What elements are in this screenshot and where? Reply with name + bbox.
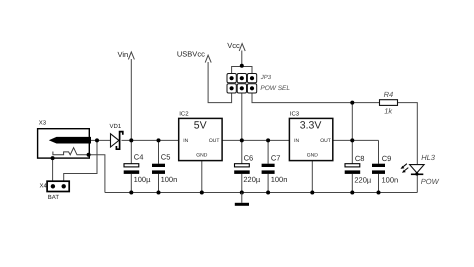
svg-text:IN: IN: [294, 138, 299, 144]
JP3 pin 5 box (bottom middle): [237, 84, 246, 93]
IC3 body: [289, 118, 332, 160]
ground: [235, 193, 249, 205]
JP3 pin 4 box (bottom left): [227, 84, 236, 93]
HL3 cathode bar: [411, 173, 423, 175]
HL3 anode triangle: [410, 165, 425, 173]
junction 5V rail / JP3 pin 2 / C6: [240, 138, 244, 142]
svg-text:100µ: 100µ: [134, 175, 152, 184]
junction R4 node: [350, 101, 354, 105]
net arrow USBVcc: [177, 49, 211, 62]
R4 body: [380, 100, 398, 106]
C6 negative plate: [234, 170, 250, 174]
VD1 anode triangle: [111, 134, 119, 147]
svg-text:HL3: HL3: [421, 153, 436, 162]
C9 bottom plate: [372, 170, 385, 174]
C8 positive plate: [345, 164, 360, 167]
svg-text:3.3V: 3.3V: [300, 120, 322, 132]
svg-text:100n: 100n: [161, 175, 178, 184]
wire Vcc arrow to JP3 top pins: [232, 51, 252, 74]
wire R4 to HL3 anode: [398, 103, 418, 165]
wire R4 node riser to 3.3V rail: [351, 103, 353, 141]
wire X4 pin2 riser to node A: [64, 140, 97, 181]
svg-text:220µ: 220µ: [354, 175, 372, 184]
X4 pin 2: [62, 184, 66, 188]
X4 body outline: [47, 181, 69, 191]
svg-text:220µ: 220µ: [243, 175, 261, 184]
junction IC2 GND: [200, 191, 204, 195]
regulator IC2 (5V): [179, 110, 222, 160]
wire IC2 GND pin: [201, 161, 203, 193]
wire ground rail: [105, 192, 417, 194]
svg-text:BAT: BAT: [48, 194, 60, 201]
svg-text:100n: 100n: [382, 175, 399, 184]
wire C6 vertical: [241, 140, 243, 192]
svg-text:5V: 5V: [194, 120, 207, 132]
X3 center pin (filled arrow): [49, 137, 91, 144]
junction VD1 cathode / Vin / C4: [129, 138, 133, 142]
connector X3 (DC power jack): [38, 119, 91, 158]
junction Vcc / JP3 top pins: [240, 64, 244, 68]
svg-text:C8: C8: [355, 154, 365, 163]
wire C9 vertical: [378, 140, 380, 192]
junction C5 bottom: [157, 191, 161, 195]
capacitor C9: [372, 154, 398, 185]
wire VD1 cathode to IC2 IN: [122, 139, 179, 141]
JP3 pin 2 box (top middle): [237, 74, 246, 83]
net arrow Vin: [118, 50, 135, 59]
IC2 body: [179, 118, 222, 160]
wire Vin arrow drop to VD1 cathode node: [130, 59, 132, 140]
capacitor C7: [262, 154, 288, 185]
wire X3 sleeve to X4 pin1: [52, 158, 54, 181]
svg-text:C9: C9: [382, 154, 392, 163]
node A junction (X3 pin / VD1 anode / battery): [95, 138, 99, 142]
svg-text:IC2: IC2: [179, 110, 189, 117]
capacitor C4 (polarized electrolytic): [124, 152, 151, 184]
svg-text:IN: IN: [183, 138, 188, 144]
junction IC3 GND: [310, 191, 314, 195]
wire X3 center pin to VD1 anode: [89, 139, 110, 141]
wire IC3 GND pin: [311, 161, 313, 193]
svg-text:Vin: Vin: [118, 50, 129, 59]
JP3 pin 3 box (top right): [247, 74, 256, 83]
wire USBVcc arrow to JP3 pin 1: [208, 62, 232, 103]
C5 top plate: [152, 164, 165, 167]
diode VD1 (Schottky): [110, 123, 123, 149]
LED HL3: [401, 153, 440, 186]
ground stub: [241, 193, 243, 203]
svg-text:R4: R4: [384, 90, 394, 99]
wire C4 vertical: [130, 140, 132, 192]
wire JP3 pin 2 drop to 5V rail: [241, 93, 243, 140]
junction C7 bottom: [266, 191, 270, 195]
C4 positive plate: [124, 164, 139, 167]
C8 negative plate: [345, 170, 361, 174]
X3 switch contact lever: [53, 148, 89, 155]
svg-text:POW: POW: [421, 177, 440, 186]
JP3 pin 6 box (bottom right): [247, 84, 256, 93]
junction 3.3V rail / C8: [350, 138, 354, 142]
svg-text:VD1: VD1: [110, 123, 122, 130]
VD1 Schottky cathode bar: [116, 132, 122, 150]
svg-text:GND: GND: [196, 152, 208, 158]
junction X3 sleeve to X4 pin1: [51, 156, 55, 160]
net arrow Vcc: [227, 41, 245, 51]
svg-text:OUT: OUT: [320, 138, 331, 144]
wire IC2 OUT to IC3 IN (5V rail): [222, 139, 289, 141]
junction C5 top: [157, 138, 161, 142]
C5 bottom plate: [152, 170, 165, 174]
svg-text:IC3: IC3: [290, 110, 300, 117]
wire HL3 cathode to ground rail: [416, 174, 418, 192]
svg-text:X3: X3: [39, 119, 47, 126]
svg-text:100n: 100n: [271, 175, 288, 184]
svg-text:Vcc: Vcc: [227, 41, 240, 50]
capacitor C5: [152, 152, 177, 184]
node B junction (X3 switch contact): [87, 153, 91, 157]
svg-text:GND: GND: [307, 152, 319, 158]
C6 positive plate: [235, 164, 250, 167]
regulator IC3 (3.3V): [289, 110, 332, 160]
svg-text:1k: 1k: [384, 106, 393, 115]
junction C7 top: [266, 138, 270, 142]
wire IC3 OUT to C9 (3.3V rail): [333, 139, 379, 141]
svg-text:OUT: OUT: [209, 138, 220, 144]
C7 bottom plate: [262, 170, 275, 174]
junction C6 bottom / ground symbol: [240, 191, 244, 195]
JP3 pin contacts: [230, 76, 234, 80]
HL3 emission arrows: [403, 164, 408, 171]
svg-text:C6: C6: [244, 154, 254, 163]
svg-text:C4: C4: [134, 152, 144, 161]
wire C8 vertical: [351, 140, 353, 192]
wire C5 vertical: [158, 140, 160, 192]
JP3 pin 1 box (top left): [227, 74, 236, 83]
C4 negative plate: [124, 170, 140, 174]
junction C9 bottom: [377, 191, 381, 195]
capacitor C8 (polarized electrolytic): [345, 154, 372, 185]
ground bar: [235, 203, 249, 206]
header JP3 POW SEL (2x3): [227, 74, 290, 94]
svg-text:C5: C5: [161, 152, 171, 161]
junction C4 bottom: [129, 191, 133, 195]
C7 top plate: [262, 164, 275, 167]
X4 pin 1: [51, 184, 55, 188]
X3 body outline: [38, 129, 90, 158]
HL3 cathode junction dot: [415, 172, 418, 175]
connector X4 (battery header): [40, 181, 70, 201]
wire C7 vertical: [267, 140, 269, 192]
svg-text:JP3: JP3: [260, 74, 272, 81]
junction C8 bottom: [350, 191, 354, 195]
svg-text:USBVcc: USBVcc: [177, 49, 205, 58]
svg-text:C7: C7: [271, 154, 281, 163]
capacitor C6 (polarized electrolytic): [234, 154, 261, 185]
C9 top plate: [372, 164, 385, 167]
wire X3 switch contact to ground rail: [89, 155, 105, 193]
svg-text:POW SEL: POW SEL: [260, 85, 290, 92]
resistor R4: [380, 90, 398, 115]
svg-text:X4: X4: [40, 183, 48, 190]
wire JP3 pin 3 to R4 node: [252, 93, 380, 103]
